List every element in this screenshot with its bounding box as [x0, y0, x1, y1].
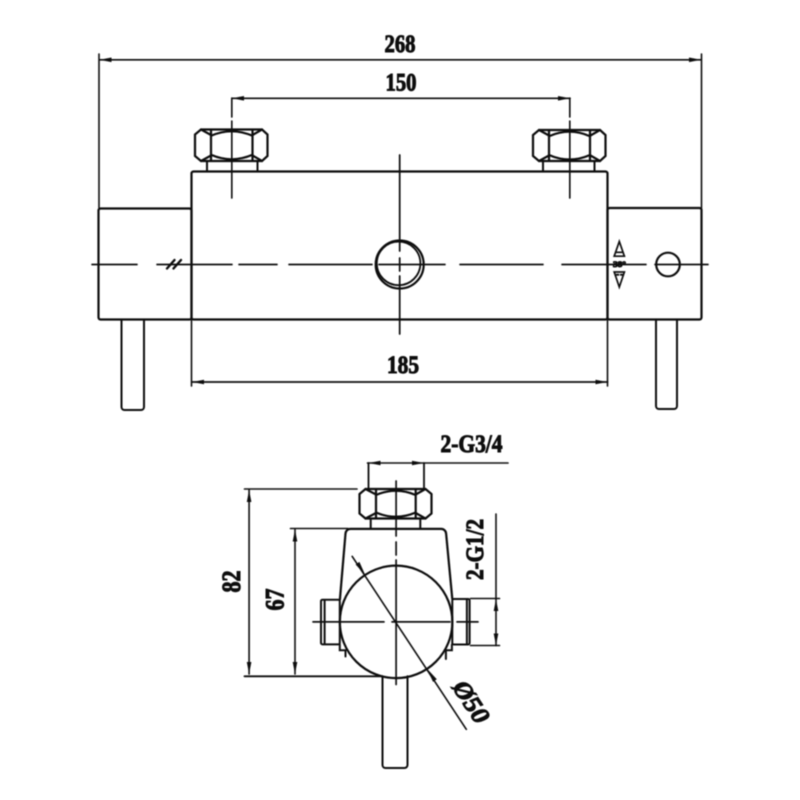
dimension 2-G1/2: arrowheads — [494, 599, 499, 646]
horizontal centerline bottom view — [313, 621, 478, 623]
ball circle Ø50 — [340, 566, 453, 679]
dimension 185: dim line — [192, 381, 608, 383]
dimension 185: extension lines — [192, 320, 608, 387]
svg-text:38°: 38° — [613, 259, 626, 269]
dimension 67: extension line top — [291, 528, 349, 530]
valve body (side view) trapezoid — [340, 529, 452, 600]
neck below nut — [371, 519, 421, 529]
dimension diameter 50: arrowheads — [356, 562, 437, 682]
hex nut left (side view) — [195, 130, 268, 162]
svg-text:185: 185 — [387, 352, 419, 379]
hex nut bottom view (side view) — [360, 489, 432, 519]
vertical centerline bottom view — [395, 481, 397, 685]
left nut centerline — [231, 98, 233, 198]
dimension 2-G3/4: arrowheads — [369, 461, 425, 466]
dimension 268: extension lines — [99, 54, 702, 208]
temperature 38 indicator: down triangle — [614, 272, 624, 287]
top thread stub — [369, 463, 425, 489]
dimension 185: arrowheads — [192, 380, 608, 385]
left nut neck — [207, 161, 258, 172]
valve body main rectangle — [192, 172, 608, 320]
left mounting plate — [99, 209, 192, 320]
dimension 150: dim line — [232, 97, 570, 99]
dimension 67: arrowheads — [293, 530, 298, 675]
svg-text:268: 268 — [385, 31, 416, 58]
dimension 268: arrowheads — [100, 58, 702, 63]
right plate hole — [656, 253, 680, 277]
right nut centerline — [569, 98, 571, 198]
right mounting plate — [608, 208, 702, 320]
horizontal centerline of top view — [92, 264, 708, 266]
dimension 2-G3/4: dim line — [368, 462, 509, 464]
dimension 67: dim line — [294, 530, 296, 675]
center hole outer circle — [376, 241, 424, 289]
svg-text:Ø50: Ø50 — [446, 675, 495, 730]
svg-text:67: 67 — [261, 589, 290, 611]
dimension 268: dim line — [100, 59, 702, 61]
dimension 2-G1/2: dim line — [495, 514, 497, 646]
dimension 2-G1/2: extension lines — [471, 599, 500, 646]
svg-text:2-G3/4: 2-G3/4 — [441, 431, 503, 458]
right nut neck — [543, 161, 595, 172]
svg-text:150: 150 — [386, 70, 417, 97]
temperature 38 indicator: up triangle — [614, 242, 624, 257]
dimension 82: arrowheads — [247, 490, 252, 674]
dimension 82: extension line top — [245, 488, 358, 490]
bottom pipe — [383, 676, 408, 768]
vertical centerline through center hole — [399, 155, 401, 334]
svg-text:82: 82 — [217, 571, 246, 593]
dimension 82: dim line — [248, 490, 250, 674]
center hole inner circle — [377, 242, 421, 286]
dimension diameter 50: leader line — [352, 556, 466, 729]
right port G1/2 — [446, 599, 470, 659]
hex nut right (side view) — [533, 130, 606, 161]
left port G1/2 — [321, 600, 346, 657]
svg-text:2-G1/2: 2-G1/2 — [462, 519, 489, 580]
bottom line / extension — [245, 675, 383, 677]
centerline break mark — [167, 260, 181, 269]
dimension 150: arrowheads — [232, 96, 570, 101]
right leg — [656, 320, 677, 410]
left leg — [122, 320, 145, 411]
